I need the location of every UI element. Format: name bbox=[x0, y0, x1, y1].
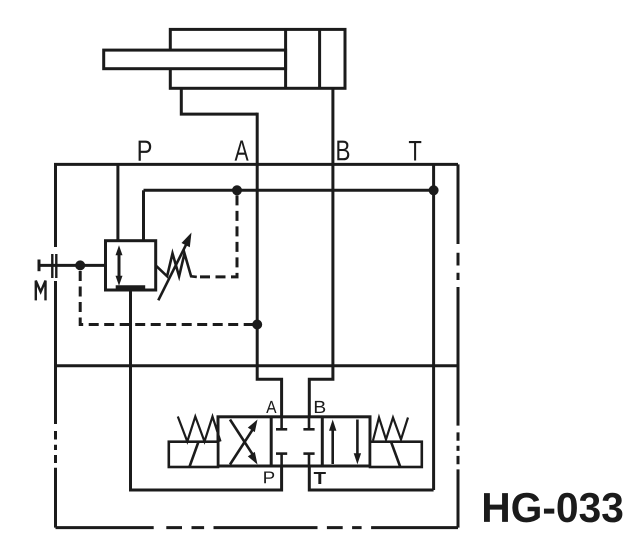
wire V1 reduced-pressure feed to DCV P bbox=[131, 290, 282, 490]
model label HG-033 bbox=[484, 493, 622, 523]
DCV center port P blocked bbox=[276, 454, 287, 466]
node pilot junction bbox=[232, 185, 242, 195]
wire T header horizontal bbox=[144, 189, 434, 192]
port label B bbox=[337, 141, 349, 161]
manifold boundary right edge bbox=[457, 164, 460, 527]
wire M gauge line bbox=[39, 264, 106, 267]
DCV center port T blocked bbox=[303, 454, 314, 466]
wire T line vertical bbox=[432, 164, 435, 490]
port label T bbox=[409, 141, 421, 161]
DCV right position down arrow bbox=[354, 420, 361, 465]
wire A line vertical bbox=[257, 113, 281, 417]
DCV center port A blocked bbox=[276, 417, 287, 430]
DCV port label P bbox=[264, 472, 274, 484]
wire V1 outlet to T header bbox=[142, 190, 145, 240]
DCV box divider 1 bbox=[270, 417, 273, 466]
wire P rail to V1 bbox=[116, 164, 119, 240]
V1 internal flow arrow bbox=[116, 245, 123, 285]
cylinder piston rod bbox=[104, 50, 286, 69]
manifold boundary bottom edge bbox=[56, 526, 459, 529]
M gauge port bars bbox=[52, 254, 56, 278]
node T junction bbox=[429, 185, 439, 195]
manifold divider line bbox=[56, 364, 459, 367]
DCV port label B bbox=[315, 401, 325, 413]
solenoid a (left) bbox=[169, 442, 218, 467]
V1 spring bbox=[156, 253, 197, 277]
DCV port label T bbox=[314, 472, 326, 484]
manifold boundary left edge bbox=[54, 164, 57, 527]
DCV right position up arrow bbox=[329, 420, 336, 465]
DCV valve body bbox=[218, 417, 370, 466]
DCV left position crossed arrow 2 bbox=[230, 420, 258, 465]
wire DCV T to T line bbox=[309, 466, 433, 490]
V1 adjustment arrow bbox=[158, 233, 191, 301]
spring left bbox=[178, 417, 221, 442]
wire B line vertical bbox=[309, 88, 333, 417]
node drain junction on A line bbox=[252, 320, 262, 330]
DCV center port B blocked bbox=[303, 417, 314, 430]
cylinder body bbox=[170, 29, 345, 88]
port label A bbox=[235, 141, 249, 161]
solenoid b (right) bbox=[370, 442, 422, 467]
DCV box divider 2 bbox=[321, 417, 324, 466]
pilot line dashed bbox=[200, 190, 237, 277]
spring right bbox=[373, 418, 408, 441]
port label P bbox=[139, 141, 152, 161]
cylinder piston line bbox=[284, 29, 287, 88]
cylinder piston line 2 bbox=[318, 29, 321, 88]
V1 drain bar bbox=[116, 285, 146, 289]
wire cylinder cap-end to A bbox=[181, 88, 257, 114]
drain line dashed bbox=[80, 271, 257, 325]
label M bbox=[36, 281, 46, 301]
pressure valve V1 body bbox=[106, 241, 156, 290]
wire top supply rail bbox=[54, 163, 458, 166]
M gauge end tick bbox=[38, 260, 41, 272]
node M junction bbox=[75, 260, 85, 270]
DCV port label A bbox=[266, 401, 276, 413]
DCV left position crossed arrow 1 bbox=[230, 420, 258, 465]
